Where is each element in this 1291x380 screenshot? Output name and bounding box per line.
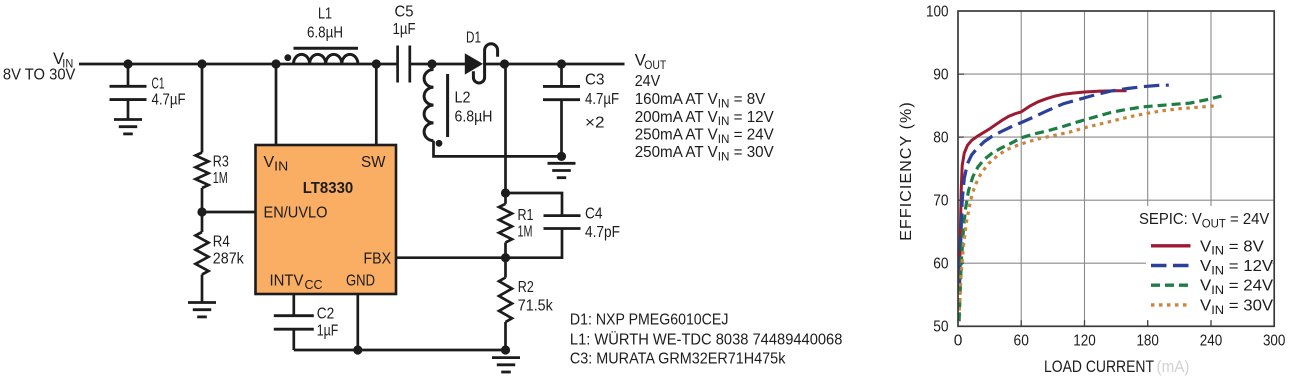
- junction: R2 bottom ground node: [501, 345, 510, 354]
- svg-text:L2: L2: [455, 90, 471, 107]
- label C2 value: [317, 306, 339, 340]
- svg-text:R2: R2: [518, 279, 534, 296]
- label C4 value: [585, 206, 620, 242]
- chart frame: [958, 11, 1274, 326]
- junction: GND rail node: [353, 345, 362, 354]
- inductor L2: [424, 70, 433, 141]
- node: VOUT label and ratings: [635, 52, 667, 72]
- wire: C5 to D1 anode: [410, 63, 466, 66]
- svg-text:60: 60: [1014, 333, 1030, 350]
- svg-text:LT8330: LT8330: [303, 180, 354, 197]
- legend background: [1146, 206, 1273, 320]
- svg-text:60: 60: [933, 256, 949, 273]
- svg-text:EN/UVLO: EN/UVLO: [264, 205, 328, 222]
- svg-text:VIN = 24V: VIN = 24V: [1200, 277, 1273, 297]
- junction: R1 top: [501, 188, 510, 197]
- svg-text:LOAD CURRENT: LOAD CURRENT: [1044, 358, 1154, 376]
- svg-text:EFFICIENCY (%): EFFICIENCY (%): [898, 101, 915, 241]
- capacitor C5: [396, 46, 399, 83]
- svg-text:CC: CC: [305, 278, 323, 292]
- svg-text:L1: L1: [318, 6, 332, 23]
- legend entry VIN=24V: [1151, 284, 1191, 287]
- junction: VIN pin tap: [271, 59, 280, 68]
- label R4 value: [213, 234, 245, 268]
- svg-text:GND: GND: [346, 273, 375, 290]
- svg-text:VIN = 8V: VIN = 8V: [1200, 238, 1264, 258]
- pin VIN of U1: [264, 154, 289, 173]
- svg-text:6.8µH: 6.8µH: [455, 109, 493, 126]
- label R1 value: [518, 207, 534, 241]
- svg-text:C3: MURATA GRM32ER71H475k: C3: MURATA GRM32ER71H475k: [570, 351, 786, 368]
- wire: SW node to SW pin: [375, 64, 378, 145]
- svg-text:70: 70: [933, 193, 949, 210]
- capacitor C3: [543, 64, 580, 156]
- svg-text:180: 180: [1136, 333, 1159, 350]
- svg-text:240: 240: [1200, 333, 1223, 350]
- resistor R4: [201, 212, 204, 232]
- wire: R4 to ground: [201, 275, 204, 303]
- svg-text:1µF: 1µF: [317, 323, 339, 340]
- junction: FBX node: [501, 253, 510, 262]
- svg-text:R4: R4: [213, 234, 230, 251]
- resistor R1: [504, 193, 507, 204]
- svg-text:C1: C1: [152, 76, 165, 93]
- chart x-axis tick labels: [954, 333, 1286, 350]
- wire: FBX pin to divider: [396, 256, 506, 259]
- inductor L1: [294, 54, 358, 64]
- pin INTVCC of U1: [270, 273, 323, 293]
- resistor R2: [504, 258, 507, 278]
- capacitor C1: [110, 64, 147, 120]
- chart legend title SEPIC: [1139, 211, 1270, 231]
- junction: EN/UVLO divider: [197, 207, 206, 216]
- node: VIN source label: [3, 50, 76, 84]
- junction: C3 ground node: [557, 152, 566, 161]
- label L2 value: [455, 90, 493, 126]
- svg-text:4.7µF: 4.7µF: [152, 91, 186, 108]
- capacitor C4: [506, 193, 563, 215]
- svg-text:300: 300: [1263, 333, 1286, 350]
- wire: L2 bottom to ground rail: [432, 64, 562, 156]
- wire: rail to R3: [201, 64, 204, 153]
- svg-text:287k: 287k: [213, 251, 245, 268]
- legend entry VIN=8V: [1151, 244, 1191, 247]
- svg-text:D1: NXP PMEG6010CEJ: D1: NXP PMEG6010CEJ: [570, 311, 729, 328]
- svg-text:VIN = 12V: VIN = 12V: [1200, 257, 1273, 277]
- svg-text:71.5k: 71.5k: [518, 298, 554, 315]
- chart gridlines: [958, 11, 1274, 326]
- label R3 value: [213, 154, 229, 188]
- wire: VOUT node down to R1: [504, 64, 507, 193]
- diode D1 schottky: [465, 53, 483, 74]
- svg-text:C2: C2: [317, 306, 335, 323]
- junction: D1 cathode node: [500, 59, 509, 68]
- op-amp U1 LT8330 regulator IC: [256, 145, 397, 294]
- svg-text:×2: ×2: [585, 115, 605, 132]
- svg-text:D1: D1: [466, 30, 481, 47]
- svg-text:250mA AT VIN = 30V: 250mA AT VIN = 30V: [635, 144, 775, 164]
- ground: below R4: [188, 303, 216, 317]
- label output current ratings: [635, 91, 775, 164]
- ground: below C1: [114, 120, 142, 134]
- phase dot of L1: [284, 54, 291, 61]
- wire: EN/UVLO to IC: [202, 211, 256, 214]
- svg-text:R3: R3: [213, 154, 229, 171]
- junction: C1 tap on VIN rail: [123, 59, 132, 68]
- curve VIN=12V blue long-dash: [959, 85, 1169, 295]
- wire: D1 cathode to VOUT: [483, 63, 625, 66]
- junction: SW node: [372, 59, 381, 68]
- label L1 value: [307, 6, 343, 42]
- svg-text:C5: C5: [395, 4, 414, 21]
- svg-text:FBX: FBX: [364, 251, 392, 268]
- svg-text:1µF: 1µF: [393, 21, 416, 38]
- legend entry VIN=12V: [1151, 264, 1191, 267]
- svg-text:6.8µH: 6.8µH: [307, 24, 343, 41]
- svg-text:4.7pF: 4.7pF: [585, 224, 620, 241]
- label C3 value: [585, 72, 619, 132]
- ground: below R2: [492, 358, 520, 372]
- chart tick marks: [958, 74, 1211, 326]
- label R2 value: [518, 279, 554, 315]
- svg-text:1M: 1M: [213, 170, 228, 187]
- svg-text:V: V: [264, 154, 275, 171]
- svg-text:(mA): (mA): [1157, 358, 1190, 376]
- svg-text:4.7µF: 4.7µF: [585, 91, 619, 108]
- svg-text:80: 80: [933, 130, 949, 147]
- junction: L2 top node: [427, 59, 436, 68]
- svg-text:50: 50: [933, 319, 949, 336]
- svg-text:L1: WÜRTH WE-TDC 8038 74489440: L1: WÜRTH WE-TDC 8038 74489440068: [570, 331, 843, 349]
- legend entry VIN=30V: [1151, 303, 1191, 306]
- core bar of L1: [294, 47, 359, 50]
- capacitor C2: [274, 294, 314, 350]
- svg-text:INTV: INTV: [270, 273, 304, 290]
- wire: GND pin to rail: [356, 294, 359, 350]
- svg-text:0: 0: [954, 333, 963, 350]
- svg-text:C4: C4: [585, 206, 603, 223]
- curve VIN=24V green dash: [959, 96, 1221, 321]
- chart y-axis tick labels: [926, 3, 949, 335]
- label C5 value: [393, 4, 416, 39]
- phase dot of L2: [436, 140, 443, 147]
- label BOM notes: [570, 311, 843, 367]
- wire: R3 to EN junction: [201, 188, 204, 212]
- svg-text:8V TO 30V: 8V TO 30V: [3, 67, 76, 84]
- svg-text:C3: C3: [585, 72, 605, 89]
- svg-text:90: 90: [933, 67, 949, 84]
- wire: bottom ground rail: [294, 349, 506, 352]
- svg-text:IN: IN: [274, 159, 288, 173]
- svg-text:SW: SW: [361, 154, 386, 171]
- label C1 value: [152, 76, 186, 109]
- wire: VIN input rail to C5: [79, 63, 398, 66]
- svg-text:120: 120: [1073, 333, 1096, 350]
- svg-text:VIN = 30V: VIN = 30V: [1200, 297, 1273, 317]
- junction: R3 tap on VIN rail: [197, 59, 206, 68]
- junction: C3 tap on VOUT rail: [557, 59, 566, 68]
- svg-text:1M: 1M: [518, 224, 533, 241]
- curve VIN=30V orange dotted: [959, 106, 1218, 311]
- svg-text:R1: R1: [518, 207, 534, 224]
- svg-text:100: 100: [926, 3, 949, 20]
- curve VIN=8V red solid: [959, 91, 1126, 289]
- core bar of L2: [446, 74, 449, 137]
- wire: rail to VIN pin: [275, 64, 278, 145]
- resistor R3: [196, 153, 209, 189]
- svg-text:24V: 24V: [635, 73, 661, 90]
- ground: below C3: [548, 163, 576, 177]
- svg-text:OUT: OUT: [644, 58, 666, 72]
